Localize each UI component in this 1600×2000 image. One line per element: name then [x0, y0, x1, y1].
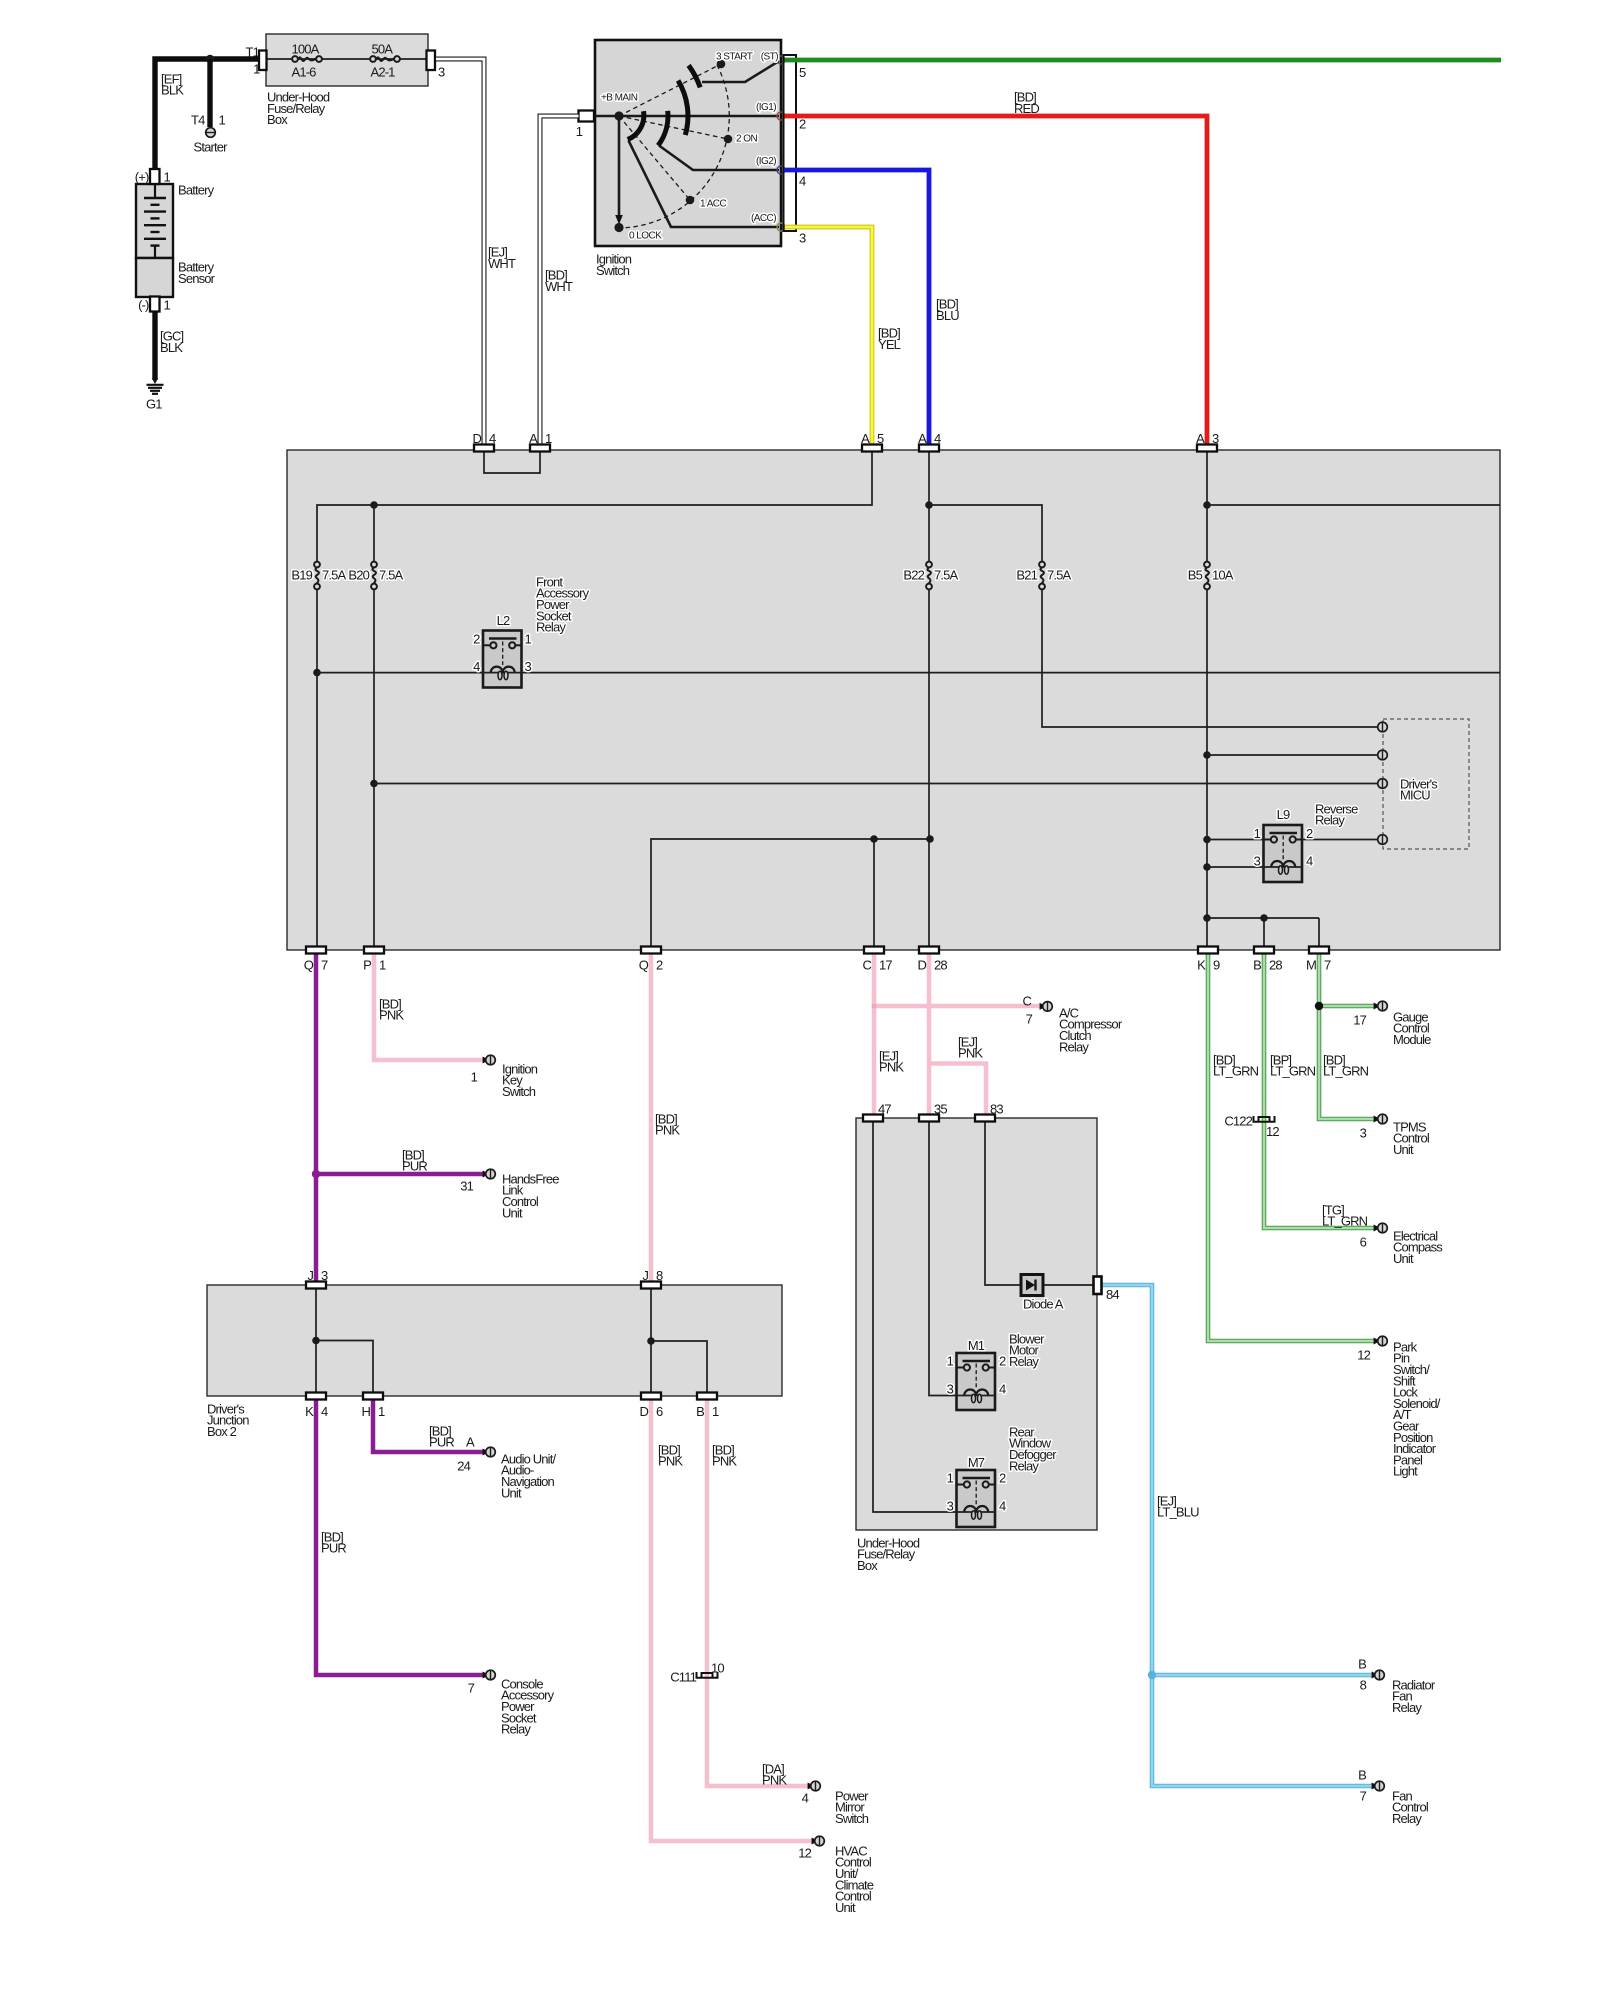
svg-text:1: 1: [253, 62, 260, 77]
svg-text:B5: B5: [1188, 568, 1203, 583]
under-hood fuse/relay box (lower): [856, 1118, 1097, 1530]
svg-text:M: M: [1306, 958, 1316, 973]
svg-text:10A: 10A: [1212, 568, 1234, 583]
svg-text:1: 1: [545, 431, 552, 446]
node B5 y839: [1203, 836, 1211, 844]
ignition switch pin circles: [777, 56, 785, 231]
fan control relay pin: [1358, 1767, 1429, 1826]
svg-text:9: 9: [1213, 958, 1220, 973]
svg-text:2: 2: [473, 632, 480, 647]
wire M7 coil line: [957, 1511, 996, 1513]
svg-text:GaugeControlModule: GaugeControlModule: [1393, 1009, 1431, 1047]
svg-text:M1: M1: [968, 1338, 985, 1353]
wire L9 pin 2 to MICU pin: [1302, 839, 1378, 841]
svg-text:50A: 50A: [372, 42, 394, 57]
svg-text:A: A: [861, 431, 870, 446]
svg-text:3: 3: [525, 659, 532, 674]
wire [BD] PUR handsfree branch: [316, 1172, 483, 1177]
wire 35 to M1 pin3: [929, 1118, 957, 1396]
svg-text:BatterySensor: BatterySensor: [178, 260, 216, 286]
node B5 y755: [1203, 751, 1211, 759]
svg-text:3: 3: [1360, 1125, 1367, 1140]
node B5 y867: [1203, 863, 1211, 871]
wire [BD] WHT (+B MAIN to A1): [540, 116, 579, 445]
svg-text:(ACC): (ACC): [751, 213, 776, 224]
connector K9: [1197, 947, 1220, 973]
svg-text:[BD]PNK: [BD]PNK: [655, 1111, 680, 1137]
wire [BD] PUR (Q7 to J3): [314, 953, 319, 1282]
connector D6: [639, 1393, 663, 1419]
ignition switch internals: [594, 60, 779, 232]
wire D4 to A1 internal loop: [484, 450, 540, 473]
ground G1: [147, 378, 164, 394]
gauge control module pin: [1353, 1001, 1431, 1047]
svg-text:12: 12: [798, 1845, 811, 1860]
svg-text:5: 5: [877, 431, 884, 446]
node B19 bus y672: [313, 669, 321, 677]
svg-text:17: 17: [1353, 1012, 1366, 1027]
wire 83 to diode A: [985, 1118, 1021, 1285]
radiator fan relay pin: [1358, 1656, 1436, 1715]
svg-text:8: 8: [1360, 1677, 1367, 1692]
svg-text:D: D: [639, 1404, 648, 1419]
svg-text:A2-1: A2-1: [371, 65, 396, 80]
svg-text:[BD]PNK: [BD]PNK: [712, 1442, 737, 1468]
svg-text:4: 4: [489, 431, 496, 446]
svg-text:1: 1: [947, 1354, 954, 1369]
wire [EJ] PNK (D28 to 35 and 83): [929, 953, 986, 1115]
svg-text:3: 3: [438, 65, 445, 80]
svg-text:C: C: [1022, 993, 1031, 1008]
wire A3 bus to box edge: [1207, 504, 1500, 506]
connector 3 (fuse box out): [427, 51, 436, 71]
wire B5 branch to MICU pin: [1207, 754, 1378, 756]
svg-text:3: 3: [947, 1382, 954, 1397]
svg-text:[BD]PUR: [BD]PUR: [429, 1423, 454, 1449]
connector 83: [975, 1101, 1003, 1121]
wire K9 B28 M7 header: [1207, 918, 1319, 948]
svg-text:2: 2: [656, 958, 663, 973]
electrical compass unit pin: [1360, 1223, 1444, 1266]
svg-text:A: A: [918, 431, 927, 446]
svg-text:4: 4: [802, 1790, 809, 1805]
svg-text:M7: M7: [968, 1455, 985, 1470]
svg-text:7: 7: [1360, 1788, 1367, 1803]
svg-text:[BD]PUR: [BD]PUR: [321, 1529, 346, 1555]
svg-text:T4: T4: [191, 113, 205, 128]
svg-text:4: 4: [999, 1382, 1006, 1397]
svg-text:4: 4: [799, 173, 806, 188]
wire B20 branch to MICU pin: [374, 783, 1378, 785]
connector P1: [363, 947, 386, 973]
under-hood fuse/relay box (top): [266, 34, 428, 86]
wire [BD] PUR (K4 to console relay): [316, 1400, 483, 1675]
wire B5 to L9 pin 3: [1207, 866, 1264, 868]
svg-text:J: J: [642, 1268, 648, 1283]
fuse B22 7.5A: [926, 562, 932, 590]
wire A3 feed: [1206, 450, 1208, 562]
node A3 bus: [1203, 501, 1211, 509]
relay M7 coil: [964, 1506, 988, 1519]
svg-text:D: D: [472, 431, 481, 446]
connector Q7: [304, 947, 328, 973]
ignition switch connector bracket: [784, 55, 797, 231]
wire L9 coil line: [1264, 866, 1303, 868]
wire B20 to P1: [373, 589, 375, 948]
wire [BD] PNK (D6 to HVAC): [651, 1400, 812, 1841]
svg-text:4: 4: [934, 431, 941, 446]
svg-text:3 START: 3 START: [716, 52, 753, 63]
svg-text:J: J: [307, 1268, 313, 1283]
label fuse B19 7.5A: [291, 568, 346, 583]
svg-text:3: 3: [321, 1268, 328, 1283]
svg-text:[BD]PUR: [BD]PUR: [402, 1147, 427, 1173]
relay L2 coil: [491, 667, 515, 680]
connector C17: [862, 947, 892, 973]
wire Q2 to C17/D28: [651, 839, 930, 948]
node C17 A/C tap: [872, 1004, 876, 1008]
audio unit pin: [457, 1434, 556, 1500]
svg-text:(IG1): (IG1): [756, 102, 776, 113]
HVAC control unit pin: [798, 1836, 874, 1915]
wire A4 feed: [928, 450, 930, 562]
svg-text:100A: 100A: [292, 42, 320, 57]
wire B5 to L9 pin 1: [1207, 839, 1264, 841]
svg-text:[DA]PNK: [DA]PNK: [762, 1761, 787, 1787]
node LT_BLU radiator tap: [1148, 1671, 1156, 1679]
svg-text:B20: B20: [348, 568, 369, 583]
connector Q2: [639, 947, 663, 973]
svg-text:7.5A: 7.5A: [1047, 568, 1072, 583]
relay L2 body: [483, 631, 522, 688]
wire bus B19/B20 to A5: [317, 450, 872, 562]
inline connector C111: [697, 1672, 718, 1678]
A/C compressor clutch relay pin: [1022, 993, 1122, 1054]
svg-text:K: K: [1197, 958, 1206, 973]
svg-text:B22: B22: [903, 568, 924, 583]
label fuse B21 7.5A: [1016, 568, 1071, 583]
battery positive cable: [155, 59, 258, 172]
connector 35: [919, 1101, 947, 1121]
connector D4: [472, 431, 496, 452]
relay L9 body: [1264, 825, 1303, 882]
node B5 y918: [1203, 914, 1211, 922]
svg-text:12: 12: [1266, 1124, 1279, 1139]
wire B20 fuse feed: [373, 505, 375, 562]
node A4 bus: [925, 501, 933, 509]
fuse B5 10A: [1204, 562, 1210, 590]
svg-text:3: 3: [1212, 431, 1219, 446]
connector J8: [641, 1268, 663, 1289]
svg-text:7.5A: 7.5A: [934, 568, 959, 583]
svg-text:G1: G1: [146, 397, 162, 412]
wire [EJ] LT_BLU (84 to fan relays): [1101, 1285, 1372, 1786]
label M7 pin numbers: [947, 1471, 1006, 1514]
wire [EJ] WHT (fuse box to D4): [436, 59, 484, 445]
connector 47: [863, 1101, 891, 1121]
connector B28: [1253, 947, 1282, 973]
svg-text:2 ON: 2 ON: [736, 134, 757, 145]
wire [BP] LT_GRN (B28 to compass): [1264, 953, 1374, 1228]
wire 47 to M7 pin3: [873, 1118, 957, 1512]
driver's MICU dashed box: [1383, 719, 1469, 849]
svg-text:B: B: [696, 1404, 704, 1419]
battery negative cable: [152, 311, 157, 380]
connector A1: [529, 431, 552, 452]
wire [BD] BLU (IG2 to A4): [785, 170, 929, 445]
relay L9 coil: [1271, 861, 1295, 874]
svg-text:Starter: Starter: [194, 140, 229, 155]
connector K4: [305, 1393, 328, 1419]
svg-text:8: 8: [656, 1268, 663, 1283]
label fuse B22 7.5A: [903, 568, 958, 583]
node J3 branch: [312, 1337, 320, 1345]
connector H1: [361, 1393, 385, 1419]
wire J8 to D6/B1: [651, 1285, 707, 1393]
node J8 branch: [647, 1337, 655, 1345]
node M7 gauge tap: [1315, 1002, 1323, 1010]
svg-text:7: 7: [1026, 1011, 1033, 1026]
svg-text:L9: L9: [1277, 807, 1290, 822]
svg-text:17: 17: [879, 958, 892, 973]
wire [BD] RED (IG1 to A3): [785, 116, 1207, 445]
svg-text:3: 3: [947, 1499, 954, 1514]
relay M1 body: [957, 1353, 996, 1410]
wire [BD]/[DA] PNK (B1 to power mirror switch): [707, 1400, 808, 1786]
svg-text:(IG2): (IG2): [756, 156, 776, 167]
svg-text:[GC]BLK: [GC]BLK: [160, 329, 184, 355]
wire B5 to K9: [1206, 589, 1208, 948]
label fuse B5 10A: [1188, 568, 1234, 583]
svg-text:Q: Q: [639, 958, 649, 973]
relay M7 body: [957, 1470, 996, 1527]
node handsfree tap: [312, 1170, 320, 1178]
wire [BD] PNK (Q2 to J8): [649, 953, 654, 1282]
svg-text:1: 1: [164, 170, 171, 185]
svg-text:7.5A: 7.5A: [379, 568, 404, 583]
label M1 pin numbers: [947, 1354, 1006, 1397]
svg-text:1: 1: [576, 124, 583, 139]
svg-text:B: B: [1253, 958, 1261, 973]
fuse 50A A2-1: [370, 56, 400, 62]
svg-text:1: 1: [1254, 826, 1261, 841]
svg-text:[BD]PNK: [BD]PNK: [379, 996, 404, 1022]
svg-text:IgnitionSwitch: IgnitionSwitch: [596, 252, 632, 278]
svg-text:[BD]YEL: [BD]YEL: [878, 326, 901, 352]
svg-text:3: 3: [1254, 854, 1261, 869]
svg-text:12: 12: [1357, 1347, 1370, 1362]
driver's junction box 2: [207, 1285, 782, 1396]
svg-text:1: 1: [712, 1404, 719, 1419]
ignition switch box: [595, 40, 781, 246]
wire M1 coil line: [957, 1395, 996, 1397]
battery positive terminal connector: [150, 169, 160, 184]
svg-text:2: 2: [1306, 826, 1313, 841]
handsfree link control unit pin: [460, 1169, 559, 1220]
wire green (ST): [785, 58, 1501, 63]
svg-text:H: H: [361, 1404, 370, 1419]
TPMS control unit pin: [1360, 1114, 1430, 1157]
wire [BD] PNK (P1 to ignition key switch): [374, 953, 483, 1060]
wire [BD] LT_GRN (M7 to gauge and TPMS): [1319, 953, 1374, 1119]
svg-text:1: 1: [164, 298, 171, 313]
park pin switch pin: [1357, 1336, 1441, 1479]
label fuse B20 7.5A: [348, 568, 403, 583]
svg-text:A1-6: A1-6: [292, 65, 317, 80]
svg-text:[EF]BLK: [EF]BLK: [161, 71, 184, 97]
svg-text:[BD]BLU: [BD]BLU: [936, 297, 959, 323]
svg-text:Q: Q: [304, 958, 314, 973]
svg-text:A: A: [466, 1434, 475, 1449]
connector T1: [259, 51, 267, 71]
battery: [136, 184, 173, 258]
svg-text:2: 2: [999, 1354, 1006, 1369]
wire diode A to connector 84: [1043, 1284, 1096, 1286]
svg-text:1 ACC: 1 ACC: [700, 199, 726, 210]
svg-text:L2: L2: [497, 613, 510, 628]
ignition key switch pin: [471, 1055, 538, 1099]
svg-text:1: 1: [471, 1069, 478, 1084]
svg-text:0 LOCK: 0 LOCK: [629, 230, 662, 241]
svg-text:1: 1: [525, 632, 532, 647]
wire B22 to D28: [928, 589, 930, 948]
fuse B20 7.5A: [371, 562, 377, 590]
svg-text:83: 83: [990, 1101, 1003, 1116]
svg-text:10: 10: [711, 1660, 724, 1675]
svg-text:[BD]RED: [BD]RED: [1014, 90, 1039, 116]
node D28 y839: [926, 835, 934, 843]
starter pin: [206, 128, 216, 138]
connector A3: [1196, 431, 1219, 452]
battery sensor: [136, 258, 173, 297]
connector D28: [917, 947, 947, 973]
wire B19 to Q7: [316, 589, 318, 948]
svg-text:B19: B19: [291, 568, 312, 583]
console accessory power socket relay pin: [468, 1670, 555, 1736]
connector J3: [306, 1268, 328, 1289]
label L9 pin numbers: [1254, 826, 1313, 869]
label L2 pin numbers: [473, 632, 531, 675]
driver's MICU pins: [1378, 722, 1388, 844]
svg-text:+B MAIN: +B MAIN: [601, 92, 638, 103]
connector B1: [696, 1393, 719, 1419]
fuse box main line: [266, 58, 428, 60]
svg-text:T1: T1: [246, 45, 260, 60]
power mirror switch pin: [802, 1781, 870, 1826]
svg-text:4: 4: [999, 1499, 1006, 1514]
svg-text:35: 35: [934, 1101, 947, 1116]
wire [BD] LT_GRN (K9 to park pin switch): [1208, 953, 1374, 1341]
svg-text:1: 1: [379, 958, 386, 973]
connector A5: [861, 431, 884, 452]
svg-text:5: 5: [799, 65, 806, 80]
svg-text:C122: C122: [1224, 1113, 1252, 1128]
svg-text:47: 47: [878, 1101, 891, 1116]
wire [BD] YEL (ACC to A5): [785, 227, 872, 445]
fuse B19 7.5A: [314, 562, 320, 590]
svg-text:B: B: [1358, 1767, 1366, 1782]
svg-text:C: C: [862, 958, 871, 973]
svg-text:28: 28: [1269, 958, 1282, 973]
wire [EJ] PNK (C17 to 47): [874, 953, 1040, 1115]
connector 84: [1094, 1277, 1102, 1295]
svg-text:C111: C111: [670, 1669, 696, 1684]
ignition switch +B MAIN connector: [579, 111, 595, 122]
connector A4: [918, 431, 941, 452]
connector M7: [1306, 947, 1331, 973]
svg-text:1: 1: [378, 1404, 385, 1419]
svg-text:7: 7: [1324, 958, 1331, 973]
svg-text:B21: B21: [1016, 568, 1037, 583]
svg-text:2: 2: [999, 1471, 1006, 1486]
svg-text:6: 6: [656, 1404, 663, 1419]
inline connector C122: [1254, 1116, 1275, 1122]
svg-text:28: 28: [934, 958, 947, 973]
svg-text:B: B: [1358, 1656, 1366, 1671]
under-dash fuse/relay junction box: [287, 450, 1500, 950]
svg-text:Battery: Battery: [178, 183, 215, 198]
wire J3 to K4/H1: [316, 1285, 373, 1393]
svg-text:P: P: [363, 958, 371, 973]
svg-text:2: 2: [799, 116, 806, 131]
svg-text:A: A: [529, 431, 538, 446]
svg-text:D: D: [917, 958, 926, 973]
svg-text:31: 31: [460, 1178, 473, 1193]
wire B21 to MICU pin: [1042, 589, 1378, 727]
svg-text:84: 84: [1106, 1287, 1119, 1302]
node C17 y839: [870, 835, 878, 843]
svg-text:[BD]PNK: [BD]PNK: [658, 1442, 683, 1468]
svg-text:3: 3: [799, 230, 806, 245]
svg-text:4: 4: [473, 659, 480, 674]
node B20 y783: [370, 780, 378, 788]
wire A4 bus to B21: [929, 505, 1042, 562]
svg-text:(ST): (ST): [761, 52, 778, 63]
fuse 100A A1-6: [292, 56, 322, 62]
svg-text:6: 6: [1360, 1234, 1367, 1249]
svg-text:K: K: [305, 1404, 314, 1419]
fuse B21 7.5A: [1039, 562, 1045, 590]
svg-text:1: 1: [219, 113, 226, 128]
svg-text:24: 24: [457, 1458, 470, 1473]
svg-text:1: 1: [947, 1471, 954, 1486]
svg-text:7: 7: [321, 958, 328, 973]
diode A: [1021, 1275, 1043, 1296]
node B28 y918: [1260, 914, 1268, 922]
svg-text:A: A: [1196, 431, 1205, 446]
relay M1 coil: [964, 1390, 988, 1403]
svg-text:(-): (-): [138, 298, 149, 313]
wire [BD] PUR (H1 to audio unit): [373, 1400, 483, 1452]
wire main bus through L2 coil: [317, 672, 1500, 674]
svg-text:4: 4: [1306, 854, 1313, 869]
svg-text:(+): (+): [135, 170, 149, 185]
battery negative terminal connector: [150, 297, 160, 312]
node starter tap: [206, 55, 214, 63]
svg-text:4: 4: [321, 1404, 328, 1419]
node on bus at B20: [370, 501, 378, 509]
wire starter feed: [207, 59, 212, 127]
svg-text:7: 7: [468, 1680, 475, 1695]
svg-text:7.5A: 7.5A: [322, 568, 347, 583]
svg-text:Diode A: Diode A: [1023, 1296, 1064, 1311]
